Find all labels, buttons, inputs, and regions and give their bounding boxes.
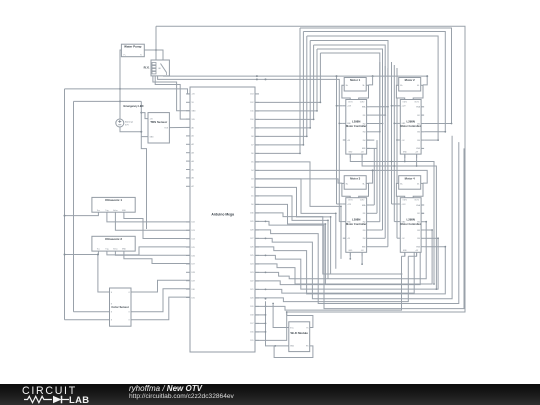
wire: channel tails to controller bottoms bbox=[402, 252, 417, 256]
svg-text:M+: M+ bbox=[400, 183, 403, 185]
wire: ultrasonic1 Trig bbox=[107, 212, 190, 222]
color sensor module bbox=[110, 288, 132, 326]
wire: relay coil signals to Arduino bbox=[153, 76, 190, 119]
svg-text:Color Sensor: Color Sensor bbox=[111, 305, 129, 309]
svg-text:D10: D10 bbox=[250, 119, 253, 121]
attribution text bbox=[129, 385, 234, 401]
svg-text:LAB: LAB bbox=[69, 394, 89, 405]
wire: controller3 bottom stubs to bus bbox=[349, 252, 363, 265]
svg-text:GND: GND bbox=[122, 210, 127, 212]
svg-text:D25: D25 bbox=[250, 255, 253, 257]
svg-text:IN4: IN4 bbox=[417, 140, 420, 142]
svg-text:Wi-Fi Module: Wi-Fi Module bbox=[291, 331, 309, 335]
CircuitLab logo bbox=[0, 384, 115, 405]
wire: +12V/GND jogs to controllers 1,3 bbox=[336, 105, 343, 222]
svg-text:D11: D11 bbox=[250, 111, 253, 113]
svg-text:D19: D19 bbox=[250, 306, 253, 308]
svg-text:GND: GND bbox=[290, 346, 295, 348]
svg-text:D3: D3 bbox=[251, 179, 253, 181]
svg-text:OUT1: OUT1 bbox=[348, 102, 353, 104]
wire: ultrasonic1 GND bbox=[124, 212, 190, 238]
svg-text:D20: D20 bbox=[250, 298, 253, 300]
svg-text:D28: D28 bbox=[192, 272, 195, 274]
L298N motor controller U3 bbox=[397, 100, 424, 159]
svg-text:IN2: IN2 bbox=[417, 123, 420, 125]
wire: Arduino pin D-14 run bbox=[255, 213, 402, 275]
svg-text:A1: A1 bbox=[192, 135, 194, 138]
svg-text:D22: D22 bbox=[192, 222, 195, 224]
svg-text:D23: D23 bbox=[250, 272, 253, 274]
wire: relay out A bbox=[158, 76, 340, 222]
wire: ultrasonic2 Echo bbox=[115, 251, 190, 255]
wire bundle: right column jogs into controller pins bbox=[370, 106, 453, 141]
svg-text:D29: D29 bbox=[250, 221, 253, 223]
svg-text:IN1: IN1 bbox=[363, 115, 366, 117]
svg-text:A6: A6 bbox=[192, 177, 194, 180]
wire bundle: gap channels left of controller 2 bbox=[391, 62, 398, 238]
wire: wifi GND feed bbox=[265, 298, 289, 347]
svg-text:Motor 2: Motor 2 bbox=[405, 78, 416, 82]
svg-text:D28: D28 bbox=[250, 230, 253, 232]
svg-text:A7: A7 bbox=[192, 185, 194, 188]
ultrasonic sensor 1 bbox=[92, 197, 135, 212]
wire: motor3 left pin feed bbox=[255, 179, 342, 183]
svg-text:A0: A0 bbox=[192, 126, 194, 129]
svg-text:OUT1: OUT1 bbox=[348, 200, 353, 202]
svg-text:IN2: IN2 bbox=[363, 222, 366, 224]
wire: ultrasonic2 GND bbox=[124, 251, 190, 263]
wire bundle: top arcs over motor groups bbox=[300, 28, 452, 140]
svg-text:D26: D26 bbox=[192, 255, 195, 257]
svg-text:D2: D2 bbox=[251, 187, 253, 189]
svg-text:D18: D18 bbox=[250, 315, 253, 317]
svg-text:Trig: Trig bbox=[105, 210, 108, 212]
svg-text:Echo: Echo bbox=[113, 210, 117, 212]
svg-text:A2: A2 bbox=[192, 143, 194, 146]
svg-text:D1: D1 bbox=[251, 196, 253, 198]
Arduino Mega U1 bbox=[186, 87, 259, 352]
svg-text:Battery1: Battery1 bbox=[125, 121, 134, 124]
svg-text:L298N: L298N bbox=[406, 218, 414, 222]
wire: color sensor left pins bbox=[65, 254, 110, 320]
svg-text:D22: D22 bbox=[250, 281, 253, 283]
svg-text:D17: D17 bbox=[250, 323, 253, 325]
svg-text:D25: D25 bbox=[192, 247, 195, 249]
svg-text:IN4: IN4 bbox=[363, 238, 366, 240]
Wi-Fi module bbox=[289, 322, 310, 352]
wire bundle: channel verticals right of Arduino bbox=[255, 28, 321, 154]
wire: row2 motor supply bbox=[255, 169, 427, 183]
svg-text:D29: D29 bbox=[192, 281, 195, 283]
wire: color sensor right pins bbox=[131, 280, 190, 320]
svg-text:Emergency LED: Emergency LED bbox=[124, 104, 144, 108]
svg-text:D30: D30 bbox=[250, 213, 253, 215]
wire: rail A top run to Arduino pin1 bbox=[65, 88, 191, 94]
wire: controller2 bottom stubs bbox=[404, 154, 418, 167]
wire: TDS out to Arduino bbox=[169, 126, 190, 128]
svg-text:D13: D13 bbox=[250, 94, 253, 96]
wire: pump to relay bbox=[144, 49, 163, 60]
svg-text:Motor 4: Motor 4 bbox=[405, 176, 416, 180]
svg-text:Vcc: Vcc bbox=[97, 210, 100, 212]
svg-text:Ultrasonic 1: Ultrasonic 1 bbox=[105, 198, 123, 202]
svg-text:Motor 1: Motor 1 bbox=[350, 78, 361, 82]
svg-text:L298N: L298N bbox=[352, 218, 360, 222]
svg-text:OUT2: OUT2 bbox=[360, 102, 365, 104]
svg-text:D24: D24 bbox=[250, 264, 253, 266]
svg-text:D24: D24 bbox=[192, 239, 195, 241]
svg-text:IN3: IN3 bbox=[417, 230, 420, 232]
svg-text:GND: GND bbox=[150, 137, 155, 139]
svg-text:Motor 3: Motor 3 bbox=[350, 176, 361, 180]
svg-text:L298N: L298N bbox=[352, 120, 360, 124]
svg-text:M+: M+ bbox=[400, 85, 403, 87]
wire: wifi VCC feed bbox=[272, 303, 289, 328]
wire bundle: inter-column gap channels bbox=[370, 62, 388, 247]
wire: ctrl1 lower right pins bbox=[367, 140, 377, 148]
wire bundle: bottom bus bbox=[255, 136, 464, 310]
wire: left rail A bbox=[64, 89, 66, 320]
svg-text:GND: GND bbox=[122, 249, 127, 251]
svg-text:IN1: IN1 bbox=[417, 115, 420, 117]
svg-text:OUT1: OUT1 bbox=[403, 200, 408, 202]
svg-text:D16: D16 bbox=[250, 332, 253, 334]
svg-text:RLY1: RLY1 bbox=[144, 67, 151, 70]
battery V1 bbox=[116, 119, 134, 127]
svg-text:L298N: L298N bbox=[406, 120, 414, 124]
svg-text:D27: D27 bbox=[192, 264, 195, 266]
svg-text:D26: D26 bbox=[250, 247, 253, 249]
wire: TDS left rail bbox=[140, 101, 148, 136]
wire: main top/right loop bbox=[156, 26, 465, 315]
svg-text:IN3: IN3 bbox=[417, 132, 420, 134]
relay RLY1 bbox=[144, 60, 170, 76]
svg-text:D21: D21 bbox=[250, 289, 253, 291]
svg-text:D4: D4 bbox=[251, 170, 253, 172]
svg-text:Arduino Mega: Arduino Mega bbox=[211, 212, 234, 216]
svg-text:D31: D31 bbox=[192, 297, 195, 299]
svg-text:D0: D0 bbox=[251, 204, 253, 206]
TDS sensor module bbox=[148, 113, 169, 143]
svg-text:IN2: IN2 bbox=[417, 222, 420, 224]
svg-text:OUT1: OUT1 bbox=[403, 102, 408, 104]
ultrasonic sensor 2 bbox=[92, 236, 135, 251]
svg-text:D30: D30 bbox=[192, 289, 195, 291]
svg-text:M+: M+ bbox=[346, 183, 349, 185]
svg-text:M+: M+ bbox=[346, 85, 349, 87]
wire: ultrasonic2 Trig bbox=[107, 247, 190, 255]
svg-text:D27: D27 bbox=[250, 238, 253, 240]
svg-text:A4: A4 bbox=[192, 160, 194, 163]
svg-text:GND: GND bbox=[192, 111, 197, 113]
motor M1 bbox=[342, 78, 369, 100]
svg-text:OUT2: OUT2 bbox=[414, 200, 419, 202]
svg-text:D9: D9 bbox=[251, 128, 253, 130]
svg-text:Water Pump: Water Pump bbox=[124, 45, 142, 49]
svg-text:A3: A3 bbox=[192, 152, 194, 155]
wire: motor1/motor2 supply drops bbox=[369, 75, 429, 85]
wire: wifi RX wrap bbox=[274, 346, 313, 358]
svg-text:IN2: IN2 bbox=[363, 123, 366, 125]
wire: controller1 bottom tails wrap motor4 bbox=[350, 154, 437, 290]
svg-text:TDS Sensor: TDS Sensor bbox=[150, 120, 168, 124]
svg-text:IN1: IN1 bbox=[417, 213, 420, 215]
svg-text:P+: P+ bbox=[124, 55, 126, 57]
svg-text:Vcc: Vcc bbox=[97, 249, 100, 251]
wire bundle: Arduino mid pins to lower controllers bbox=[255, 162, 342, 284]
wire bundle: right channel jogs to controller 4 bbox=[413, 204, 446, 248]
wire: wifi TX wrap bbox=[287, 316, 313, 328]
svg-text:Ultrasonic 2: Ultrasonic 2 bbox=[105, 237, 123, 241]
wire: Arduino bottom right pins bbox=[255, 311, 288, 340]
wire: rail B top run bbox=[74, 100, 142, 102]
svg-text:D23: D23 bbox=[192, 230, 195, 232]
wire: relay out B bbox=[164, 75, 428, 204]
motor M2 bbox=[396, 78, 423, 100]
wire: TDS +5V hook bbox=[141, 113, 148, 119]
wire: loop drop to relay bbox=[155, 26, 157, 60]
wire: TDS aux drop bbox=[141, 137, 146, 229]
svg-text:D5: D5 bbox=[251, 162, 253, 164]
motor M4 bbox=[396, 176, 423, 198]
svg-text:A5: A5 bbox=[192, 168, 194, 171]
L298N motor controller U4 bbox=[343, 198, 370, 257]
svg-text:D7: D7 bbox=[251, 145, 253, 147]
wire: left rail B bbox=[73, 101, 75, 311]
svg-text:57V: 57V bbox=[125, 125, 129, 127]
footer attribution bar bbox=[0, 384, 540, 405]
svg-text:IN3: IN3 bbox=[363, 132, 366, 134]
svg-text:Echo: Echo bbox=[113, 249, 117, 251]
svg-text:Trig: Trig bbox=[105, 249, 108, 251]
svg-text:D12: D12 bbox=[250, 102, 253, 104]
svg-text:IN4: IN4 bbox=[363, 140, 366, 142]
water pump P1 bbox=[121, 44, 144, 57]
wire: ultrasonic2 Vcc bbox=[64, 251, 99, 255]
svg-text:D6: D6 bbox=[251, 153, 253, 155]
svg-text:D15: D15 bbox=[250, 340, 253, 342]
wire: pump-battery vertical bbox=[120, 50, 121, 119]
wire: ultrasonic1 Vcc bbox=[64, 212, 99, 216]
L298N motor controller U2 bbox=[343, 100, 370, 159]
motor M3 bbox=[342, 176, 369, 198]
svg-text:IN1: IN1 bbox=[363, 213, 366, 215]
L298N motor controller U5 bbox=[397, 198, 424, 257]
svg-text:OUT2: OUT2 bbox=[414, 102, 419, 104]
svg-text:IN4: IN4 bbox=[417, 238, 420, 240]
svg-text:IN3: IN3 bbox=[363, 230, 366, 232]
wire: battery negative run bbox=[120, 127, 141, 132]
svg-text:D8: D8 bbox=[251, 136, 253, 138]
wire: ultrasonic1 Echo bbox=[115, 212, 190, 230]
svg-text:OUT2: OUT2 bbox=[360, 200, 365, 202]
